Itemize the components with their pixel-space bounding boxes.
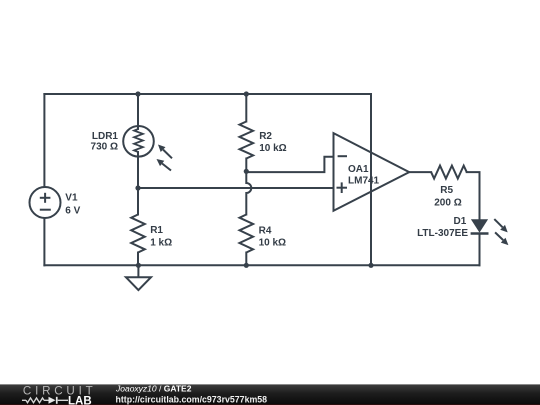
svg-text:R5: R5	[440, 185, 453, 196]
svg-text:http://circuitlab.com/c973rv57: http://circuitlab.com/c973rv577km58	[116, 394, 268, 404]
svg-text:R4: R4	[259, 225, 272, 236]
svg-text:LM741: LM741	[348, 176, 380, 187]
svg-text:6 V: 6 V	[65, 205, 80, 216]
svg-text:D1: D1	[454, 216, 467, 227]
svg-text:OA1: OA1	[348, 164, 369, 175]
svg-text:V1: V1	[65, 193, 78, 204]
svg-text:LTL-307EE: LTL-307EE	[417, 228, 468, 239]
svg-text:R1: R1	[150, 225, 163, 236]
svg-text:LDR1: LDR1	[92, 131, 119, 142]
svg-text:Joaoxyz10 / GATE2: Joaoxyz10 / GATE2	[115, 383, 192, 393]
svg-text:200 Ω: 200 Ω	[434, 197, 461, 208]
svg-text:LAB: LAB	[68, 395, 92, 405]
svg-text:10 kΩ: 10 kΩ	[259, 143, 286, 154]
svg-text:10 kΩ: 10 kΩ	[259, 237, 286, 248]
svg-text:730 Ω: 730 Ω	[91, 142, 118, 153]
svg-text:R2: R2	[259, 131, 272, 142]
svg-text:1 kΩ: 1 kΩ	[150, 238, 172, 249]
